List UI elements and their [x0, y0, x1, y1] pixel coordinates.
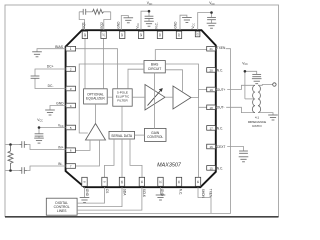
top pin name labels: [81, 21, 195, 29]
input network IN+: [5, 141, 65, 149]
wire pin28 to equalizer top: [84, 38, 86, 88]
pin 11: [139, 177, 144, 186]
capacitor C4 VCC bypass: [207, 17, 216, 19]
wire CS bus: [77, 187, 104, 203]
wire bias circuit top to TXEN pin 21: [155, 50, 206, 61]
svg-text:16: 16: [209, 145, 213, 149]
external circuitry: [79, 12, 111, 30]
wire serial data to gain control: [135, 134, 145, 136]
svg-text:12: 12: [158, 180, 162, 184]
svg-text:SHDN: SHDN: [201, 189, 205, 199]
OUT+ wire to transformer: [216, 85, 255, 89]
pin 22: [195, 31, 200, 37]
svg-text:10: 10: [120, 180, 124, 184]
transformer T1: [252, 85, 260, 112]
pin 6: [66, 148, 76, 153]
svg-text:DC-: DC-: [48, 84, 54, 88]
ground (pin 4 GND): [45, 101, 65, 115]
pin 20: [207, 68, 216, 73]
pin 17: [207, 126, 216, 131]
svg-text:11: 11: [140, 180, 144, 183]
block: OPTIONAL EQUALIZER: [84, 89, 108, 104]
wire VGA to output amp: [165, 96, 173, 98]
svg-text:RATIO: RATIO: [252, 124, 262, 128]
block: GAIN CONTROL: [145, 128, 167, 141]
pin box 1 BIAS on chamfer: [66, 46, 76, 51]
svg-text:OUT-: OUT-: [217, 106, 225, 110]
capacitor C5 VCC bypass: [35, 134, 44, 136]
svg-text:1: 1: [70, 47, 72, 51]
input network IN-: [5, 162, 65, 174]
OUT- wire to transformer: [216, 107, 255, 112]
pin 10: [119, 177, 124, 186]
svg-text:GND: GND: [56, 101, 64, 105]
wire equalizer network top rail: [79, 11, 111, 13]
svg-text:27: 27: [102, 33, 106, 37]
svg-text:18: 18: [209, 106, 213, 110]
pin 13: [176, 177, 181, 186]
capacitor C7 IN-: [19, 167, 27, 174]
internal wires: [76, 38, 207, 177]
ground: [144, 21, 154, 26]
ground (transformer secondary): [268, 115, 278, 120]
pin 5: [66, 125, 76, 130]
wire filter to VGA: [132, 96, 145, 98]
capacitor C2 DC block between pins 2 and 3: [31, 64, 66, 88]
svg-text:TXEN: TXEN: [209, 189, 213, 198]
svg-text:14: 14: [196, 180, 200, 184]
pin 4: [66, 103, 76, 108]
capacitor C6 IN+: [19, 141, 27, 148]
wire serial data to pin 11 SCLK: [130, 139, 142, 177]
IC U1 MAX3507 body: [66, 30, 216, 187]
wire SHDN drop from pin 14: [198, 187, 211, 213]
svg-text:LINES: LINES: [57, 209, 67, 213]
op-amp output amplifier: [173, 86, 191, 109]
ground (BIAS pin 1): [32, 52, 42, 57]
svg-text:17: 17: [209, 126, 213, 130]
svg-text:BIAS: BIAS: [55, 45, 63, 49]
svg-text:24: 24: [158, 33, 162, 37]
wire filter bottom to serial data top: [121, 106, 123, 131]
node output port: [273, 83, 276, 86]
ground: [34, 138, 44, 143]
wire bias circuit left lower to filter top: [128, 69, 144, 89]
svg-text:CEXT: CEXT: [217, 145, 226, 149]
pin 8: [82, 177, 87, 186]
wire equalizer to filter: [107, 96, 113, 98]
svg-text:23: 23: [177, 33, 181, 37]
svg-text:IN-: IN-: [58, 162, 62, 166]
wire output amp to OUT+ pin 19: [191, 90, 207, 98]
pin 27: [101, 31, 106, 38]
svg-text:22: 22: [196, 32, 200, 36]
digital control lines box: [46, 198, 77, 215]
wire pin28 up to equalizer network: [79, 12, 84, 30]
ground: [239, 157, 249, 162]
svg-text:21: 21: [209, 47, 213, 51]
wire bias circuit right lower to output amp top: [165, 70, 182, 92]
svg-text:N.C.: N.C.: [217, 126, 223, 130]
wire serial data to pin 10 SDA: [121, 139, 123, 177]
svg-text:TXEN: TXEN: [217, 46, 226, 50]
svg-text:CS: CS: [105, 189, 109, 193]
op-amp input amplifier (triangle up): [86, 124, 106, 141]
ground: [207, 23, 217, 28]
svg-text:28: 28: [83, 33, 87, 37]
svg-text:GND: GND: [160, 189, 164, 197]
svg-text:19: 19: [209, 88, 213, 92]
op-amp variable gain amplifier: [145, 85, 165, 111]
pin 12: [158, 177, 163, 186]
supply VCC (pin 22): [198, 1, 217, 30]
pin 24: [157, 31, 162, 38]
resistor R2 input termination: [8, 146, 13, 169]
wire pin27 up to equalizer network: [104, 12, 111, 30]
svg-text:DC+: DC+: [47, 64, 54, 68]
pin boxes top edge: [82, 31, 200, 38]
wire SDA bus: [77, 187, 122, 206]
svg-text:MAX3507: MAX3507: [157, 163, 182, 169]
pin 7: [66, 164, 76, 169]
pin 16: [207, 144, 216, 149]
wire bias circuit bottom to gain control top: [154, 73, 156, 128]
supply VCC transformer center tap: [242, 61, 261, 99]
pin 23: [176, 31, 181, 38]
pin 15: [207, 166, 216, 171]
svg-text:20: 20: [209, 68, 213, 72]
svg-text:GND: GND: [174, 21, 178, 29]
wire equalizer bottom to input amp apex: [95, 104, 97, 124]
wire output node down to pin 14 SHDN: [198, 107, 200, 177]
svg-text:CIRCUIT: CIRCUIT: [148, 67, 161, 71]
bottom pin name labels: [85, 189, 213, 199]
ground (pin 8 GND): [80, 187, 90, 202]
capacitor C3 VCC bypass: [145, 16, 154, 18]
pin 2: [66, 67, 76, 72]
secondary to output port: [258, 84, 273, 87]
pin 19: [207, 87, 216, 92]
pin 14: [195, 177, 200, 186]
ground: [252, 79, 262, 84]
svg-text:15: 15: [209, 166, 213, 170]
svg-text:SERIAL DATA: SERIAL DATA: [111, 134, 133, 138]
wire pin27 to equalizer top: [103, 38, 105, 88]
capacitor C1 equalizer: [83, 9, 86, 15]
supply VCC (pin 25): [141, 1, 154, 30]
svg-text:N.C.: N.C.: [155, 22, 159, 28]
ground (pin 12 GND): [156, 187, 166, 200]
pin 9: [102, 177, 107, 186]
svg-text:GND: GND: [85, 189, 89, 197]
pin boxes left edge: [66, 67, 76, 169]
pin 21: [207, 46, 216, 51]
pin 26 GND external ground: [121, 16, 128, 31]
pin 23 GND external ground: [180, 15, 187, 30]
pin 1 BIAS external: wire and ground: [37, 49, 66, 52]
wire bias circuit left upper to input amp side: [79, 64, 144, 133]
block: 5-POLE ELLIPTIC FILTER: [113, 89, 132, 106]
pin boxes bottom edge: [82, 177, 201, 186]
wire pin 7 IN- to input amp: [76, 140, 100, 166]
wire pin 6 IN+ to input amp: [76, 140, 91, 150]
capacitor C8 bypass: [252, 74, 261, 76]
resistor R1 equalizer: [93, 9, 104, 14]
wire TXEN bus to pin 21: [77, 49, 230, 214]
pin boxes right edge: [207, 46, 216, 170]
pin 26: [120, 31, 125, 38]
svg-text:26: 26: [120, 33, 124, 37]
pin 28: [82, 31, 87, 38]
pin 18: [207, 105, 216, 110]
supply VCC (pin 5): [34, 118, 65, 143]
block: SERIAL DATA: [109, 131, 135, 139]
svg-text:N.C.: N.C.: [217, 69, 223, 73]
svg-text:IN+: IN+: [58, 145, 63, 149]
secondary bottom to ground: [258, 113, 273, 115]
wire pin1 BIAS to filter top: [76, 49, 118, 89]
svg-text:N.C.: N.C.: [179, 189, 183, 195]
wire SCLK bus: [77, 187, 142, 210]
CEXT capacitor on pin 16: [216, 147, 249, 162]
wire bias circuit right upper to output node: [165, 64, 198, 90]
right pin name labels: [217, 69, 226, 171]
svg-text:FILTER: FILTER: [117, 99, 128, 103]
svg-text:N.C.: N.C.: [217, 166, 223, 170]
pin 25: [138, 31, 143, 38]
svg-text:GND: GND: [117, 21, 121, 29]
svg-text:EQUALIZER: EQUALIZER: [86, 97, 105, 101]
svg-text:25: 25: [139, 33, 143, 37]
svg-text:13: 13: [177, 180, 181, 184]
wire output node to OUT- pin 18: [199, 90, 207, 108]
svg-text:OUT+: OUT+: [217, 88, 226, 92]
block: BIAS CIRCUIT: [144, 61, 165, 73]
svg-text:EQ1: EQ1: [81, 22, 85, 29]
svg-text:CONTROL: CONTROL: [147, 135, 163, 139]
svg-text:EQ2: EQ2: [100, 22, 104, 29]
control bus wires: [77, 49, 230, 214]
pin 3: [66, 86, 76, 91]
wire serial data to pin 9 CS: [105, 139, 115, 177]
svg-text:SCLK: SCLK: [142, 189, 146, 198]
svg-text:SDA: SDA: [122, 189, 126, 196]
